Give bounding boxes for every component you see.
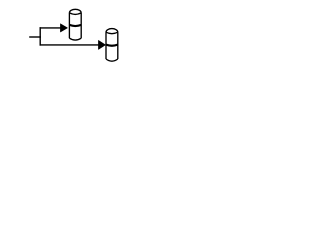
lid top arc bbox=[69, 9, 81, 13]
lid chord bbox=[69, 13, 81, 15]
cylinder node 1 bbox=[69, 9, 81, 40]
background bbox=[0, 0, 150, 69]
bottom arc bbox=[69, 38, 81, 40]
wire: left stub bbox=[29, 36, 41, 38]
wire: vertical trunk bbox=[39, 27, 41, 45]
arrowhead into cylinder 1 bbox=[60, 24, 67, 32]
bottom arc bbox=[106, 59, 118, 61]
lid top arc bbox=[106, 29, 118, 33]
arrowhead into cylinder 2 bbox=[98, 40, 105, 49]
seam band bbox=[69, 25, 81, 26]
side walls bbox=[105, 32, 107, 59]
lid chord bbox=[106, 32, 118, 34]
wire: top branch bbox=[40, 27, 62, 29]
seam band bbox=[106, 45, 118, 46]
cylinder node 2 bbox=[106, 29, 118, 62]
side walls bbox=[68, 13, 70, 38]
wire: bottom branch bbox=[40, 44, 100, 46]
